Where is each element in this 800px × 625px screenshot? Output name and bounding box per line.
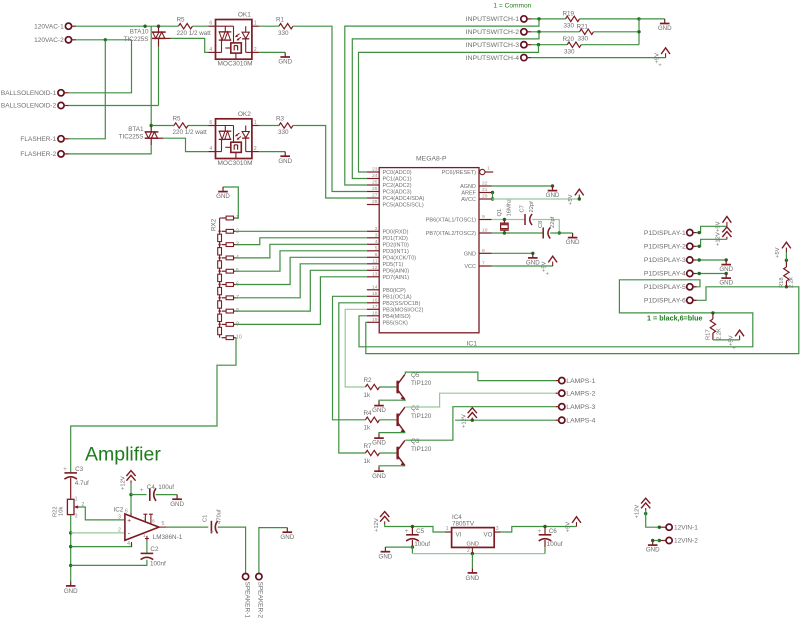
svg-text:AREF: AREF [461,191,476,197]
svg-text:+5V: +5V [654,53,660,64]
transistor Q2 TIP120 [396,414,398,427]
svg-text:R1: R1 [276,16,285,23]
wire rail to op-amp pin4 [71,543,132,546]
RX2 element pin 7 [226,296,233,300]
svg-text:BTA10: BTA10 [130,29,149,36]
wire 12VIN-2 to ground [659,540,666,542]
svg-text:24: 24 [372,173,378,179]
svg-text:+: + [63,466,67,473]
svg-text:P1DISPLAY-1: P1DISPLAY-1 [644,230,686,237]
wire triac BTA1 MT1 to FLASHER-2 [150,138,152,145]
pin 7 VCC [479,265,492,267]
ground C4 [176,495,178,500]
wire 120VAC-1 feed to triac BTA1 and R5b [150,26,152,125]
pin 22 AGND [479,185,492,187]
wire P1DISPLAY-4 to ground [697,273,727,275]
wire PB1 to R4 [333,296,367,420]
wire VCC to +5V [492,265,553,267]
terminal P1DISPLAY-2 [687,243,693,249]
wire Q3 collector to LAMPS-3 [405,407,555,441]
wire P1DISPLAY-2 to +12V [697,239,727,246]
svg-text:GND: GND [464,251,476,257]
triac BTA1 TIC225S [150,126,152,132]
supply +5V AVCC [578,195,580,199]
op-amp pin 1 stub to C2 [146,536,148,541]
svg-text:IC2: IC2 [114,507,124,514]
terminal SPEAKER-1 [243,574,249,580]
resistor R3 (330) [279,123,293,128]
svg-text:GND: GND [280,534,294,541]
svg-text:PC6(/RESET): PC6(/RESET) [442,170,476,176]
svg-text:LAMPS-2: LAMPS-2 [566,390,595,397]
svg-text:P1DISPLAY-6: P1DISPLAY-6 [644,298,686,305]
svg-text:16: 16 [372,297,378,303]
opto-isolator OK1 (MOC3010M) [216,20,252,60]
junction 120VAC-1 at triac Q1 anode [157,25,160,28]
wire R2 to Q5 base [380,386,397,388]
svg-text:120VAC-1: 120VAC-1 [34,23,64,30]
svg-text:4: 4 [209,47,212,53]
ground speaker return [286,528,288,533]
RX2 series resistor [218,261,222,268]
resistor R21 (330) [580,29,594,34]
svg-text:12: 12 [372,265,378,271]
svg-text:PC4(ADC4/SDA): PC4(ADC4/SDA) [383,196,425,202]
svg-text:22: 22 [482,181,488,187]
svg-text:+5V: +5V [542,261,548,272]
supply +12V lamps [471,418,473,421]
wire R3 to MEGA8 PC4 [293,126,367,199]
svg-text:LAMPS-4: LAMPS-4 [566,417,595,424]
svg-text:GND: GND [64,588,78,595]
svg-text:R5: R5 [173,116,182,123]
svg-text:1k: 1k [364,458,372,465]
junction 120VAC-2 / FLASHER-1 feed [104,38,107,41]
wire 120VAC-2 to BALLSOLENOID-1 [69,40,132,93]
pin 13 PD7(AIN1) [367,276,379,278]
svg-text:21: 21 [482,187,488,193]
pin 21 AREF [479,192,492,194]
svg-text:+12V: +12V [716,232,722,246]
svg-text:+5V: +5V [716,221,722,232]
wire C6 to ground rail [544,547,546,554]
RX2 series resistor [218,327,222,334]
svg-text:AVCC: AVCC [461,197,476,203]
ground OK2 [284,152,286,157]
wire C7 to C8 junction [532,220,559,234]
svg-text:PD5(T1): PD5(T1) [383,262,404,268]
transistor Q3 TIP120 [396,447,398,460]
wire AVCC to +5V [492,198,580,200]
svg-text:TIC225S: TIC225S [124,36,149,43]
wire PB4 to P1DISPLAY-5 (IC1 net) [359,280,753,347]
wire RX2 pin 3 to PD1 [236,238,367,245]
svg-text:INPUTSWITCH-1: INPUTSWITCH-1 [466,16,519,23]
wire R19 to ground rail [580,18,640,20]
svg-text:PD7(AIN1): PD7(AIN1) [383,275,410,281]
svg-text:7: 7 [143,517,146,523]
wire C8 to ground [550,232,572,234]
svg-text:9: 9 [482,214,485,220]
svg-text:PB3(MOSI/OC2): PB3(MOSI/OC2) [383,307,424,313]
svg-text:INPUTSWITCH-4: INPUTSWITCH-4 [466,55,519,62]
svg-text:C8: C8 [538,221,544,228]
svg-text:PB6(XTAL1/TOSC1): PB6(XTAL1/TOSC1) [426,218,476,224]
supply +12V display 2 [726,237,728,240]
svg-text:PC1(ADC1): PC1(ADC1) [383,177,412,183]
svg-text:16Mhz: 16Mhz [507,199,513,217]
RX2 element pin 6 [226,283,233,287]
wire LAMPS-4 to +12V [455,419,555,421]
wire Q3 emitter to ground [379,465,405,468]
svg-text:+: + [546,272,550,278]
wire Q2 collector to LAMPS-2 [405,393,555,407]
svg-text:4: 4 [127,541,130,547]
svg-text:6: 6 [209,120,212,126]
ground crystal [572,233,574,238]
wire C1 to SPEAKER-1 [218,527,246,573]
svg-text:28: 28 [372,199,378,205]
svg-text:2.2k: 2.2k [789,277,795,288]
svg-text:100uf: 100uf [414,541,430,548]
svg-text:FLASHER-1: FLASHER-1 [20,136,56,143]
svg-text:C2: C2 [150,546,159,553]
svg-text:+5V: +5V [568,194,574,205]
pin 26 PC3(ADC3) [367,191,379,193]
ground amplifier rail [70,581,72,586]
svg-text:100uf: 100uf [158,484,174,491]
wire RX2 pin 10 to amplifier input [71,338,236,473]
svg-text:3: 3 [75,514,78,520]
wire OK2 pin 1 to R3 [259,125,279,127]
pin 24 PC1(ADC1) [367,178,379,180]
svg-text:11: 11 [372,258,377,264]
svg-text:C6: C6 [549,528,558,535]
RX2 series resistor [218,274,222,281]
resistor R18 (2.2k) pullup [785,285,788,288]
RX2 ladder rail [220,217,222,219]
wire RX2 pin 4 to PD2 [236,244,367,258]
svg-text:5: 5 [375,245,378,251]
terminal LAMPS-4 [559,417,565,423]
svg-text:10: 10 [236,335,242,341]
wire regulator ground rail [412,553,545,555]
ground OK1 [284,52,286,57]
pin 4 PD2(INT0) [367,243,379,245]
supply +12V input header [645,508,647,511]
svg-text:LAMPS-1: LAMPS-1 [566,378,595,385]
ground AGND [552,186,554,191]
wire 120VAC-2 [76,39,132,41]
svg-text:1 = Common: 1 = Common [493,3,531,10]
svg-text:LAMPS-3: LAMPS-3 [566,404,595,411]
wire P1DISPLAY-1 to +5V [697,226,727,232]
svg-text:OK2: OK2 [238,111,251,118]
svg-text:PD4(XCK/T0): PD4(XCK/T0) [383,255,417,261]
svg-text:PC3(ADC3): PC3(ADC3) [383,190,412,196]
svg-text:330: 330 [278,30,289,37]
svg-text:R2: R2 [364,377,373,384]
RX2 element pin 8 [226,309,233,313]
svg-text:1k: 1k [364,392,372,399]
svg-text:26: 26 [372,186,378,192]
svg-text:INPUTSWITCH-2: INPUTSWITCH-2 [466,29,519,36]
svg-text:PC0(ADC0): PC0(ADC0) [383,170,412,176]
wire PB2 to R7 [339,303,367,453]
wire PB3 to R2 [345,309,367,387]
svg-text:VI: VI [456,532,462,539]
svg-text:R4: R4 [364,410,373,417]
svg-text:330: 330 [278,129,289,136]
svg-text:GND: GND [372,473,386,480]
wire INPUTSWITCH-3 to R20 and MEGA8 PC0 [531,44,567,46]
svg-text:R5: R5 [177,16,186,23]
svg-text:R19: R19 [563,10,575,17]
svg-text:2: 2 [467,548,470,554]
svg-text:PB1(OC1A): PB1(OC1A) [383,294,412,300]
pin 6 PD4(XCK/T0) [367,256,379,258]
svg-text:+12V: +12V [635,505,641,519]
svg-text:1 = black,6=blue: 1 = black,6=blue [647,314,703,323]
svg-text:120VAC-2: 120VAC-2 [34,37,64,44]
svg-text:GND: GND [719,280,733,287]
svg-text:MOC3010M: MOC3010M [218,61,253,68]
svg-text:TIP120: TIP120 [411,413,432,420]
svg-text:R3: R3 [276,116,285,123]
resistor R4 (1k) [366,417,380,422]
svg-text:3: 3 [118,514,121,520]
resistor R5 (220 1/2 watt) [178,24,192,29]
svg-text:+: + [127,518,131,525]
svg-text:7: 7 [482,261,485,267]
svg-text:2: 2 [254,146,257,152]
supply +12V op-amp [130,483,132,495]
svg-text:C4: C4 [147,484,156,491]
terminal SPEAKER-2 [256,574,262,580]
svg-text:GND: GND [467,542,479,548]
svg-text:PB7(XTAL2/TOSC2): PB7(XTAL2/TOSC2) [426,231,476,237]
svg-text:+5V: +5V [775,247,781,258]
wire R21 to rail [594,31,640,33]
svg-text:GND: GND [646,547,660,554]
terminal P1DISPLAY-6 [687,297,693,303]
svg-text:19: 19 [372,317,378,323]
svg-text:R7: R7 [364,443,373,450]
pin 11 PD5(T1) [367,263,379,265]
terminal INPUTSWITCH-2 [521,29,527,35]
capacitor C5 (100uf) [411,527,413,535]
resistor R1 (330) [279,24,293,29]
svg-text:6: 6 [375,252,378,258]
RX2 element pin 2 [226,229,233,233]
terminal 12VIN-2 [666,537,672,543]
svg-text:OK1: OK1 [238,12,251,19]
svg-text:1: 1 [446,526,449,532]
RX2 series resistor [218,287,222,294]
svg-text:14: 14 [372,284,378,290]
wire IC4 VO to +5V [501,527,577,533]
resistor R17 (2.2K) pullup [711,311,714,314]
svg-text:MEGA8-P: MEGA8-P [416,155,447,162]
svg-text:SPEAKER-2: SPEAKER-2 [257,582,264,619]
svg-text:27: 27 [372,193,378,199]
svg-text:+: + [658,63,662,69]
svg-text:8: 8 [482,248,485,254]
wire 120VAC-2 to FLASHER-1 [69,40,106,139]
wire INPUTSWITCH-1 to R19 and MEGA8 PC2 [531,18,566,20]
wire rail to ground [639,18,665,20]
wire Q2 emitter to ground [379,432,405,435]
wire amp ground rail [70,515,72,582]
svg-text:220 1/2 watt: 220 1/2 watt [177,30,212,37]
wire triac BTA10 gate to OK1 pin 4 [166,37,171,39]
terminal LAMPS-1 [559,378,565,384]
capacitor C8 22pf [542,228,544,239]
svg-text:TIC225S: TIC225S [119,134,144,141]
supply +5V R17 [739,336,741,340]
svg-text:+: + [210,529,214,536]
IC U1 MEGA8-P box [379,168,479,333]
pin 27 PC4(ADC4/SDA) [367,197,379,199]
crystal Q1 16MHz [503,220,505,224]
svg-text:RX2: RX2 [211,218,218,231]
pin 23 PC0(ADC0) [367,171,379,173]
wire RX2 pin 9 to PD7 [236,277,367,325]
svg-text:100uf: 100uf [547,541,563,548]
wire RX2 pin 8 to PD6 [236,270,367,311]
terminal LAMPS-3 [559,404,565,410]
svg-text:18: 18 [372,310,378,316]
wire C5 to ground [385,546,412,548]
wire triac BTA1 gate to OK2 pin 4 [158,137,163,139]
RX2 series resistor [218,301,222,308]
svg-text:Amplifier: Amplifier [85,444,161,466]
wire RX2 pin 2 to PD0 [236,230,367,232]
pin 10 PB7(XTAL2/TOSC2) [479,232,492,234]
svg-text:1: 1 [143,533,146,539]
svg-text:R20: R20 [563,36,575,43]
svg-text:10: 10 [482,228,488,234]
terminal P1DISPLAY-5 [687,284,693,290]
svg-text:23: 23 [372,167,378,173]
pin 19 PB5(SCK) [367,321,379,323]
resistor R2 (1k) [366,384,380,389]
svg-text:GND: GND [379,553,393,560]
wire C4 to ground [156,494,178,496]
svg-text:15: 15 [372,291,378,297]
pin 9 PB6(XTAL1/TOSC1) [479,219,492,221]
svg-text:12VIN-2: 12VIN-2 [674,538,698,545]
RX2 pin 1 to ground [223,187,238,218]
supply +5V input switches [665,53,667,57]
svg-text:13: 13 [372,271,378,277]
svg-text:20: 20 [482,194,488,200]
svg-text:3: 3 [375,232,378,238]
terminal BALLSOLENOID-2 [58,102,64,108]
terminal INPUTSWITCH-4 [521,55,527,61]
svg-text:25: 25 [372,180,378,186]
svg-text:330: 330 [564,48,575,55]
wire triac BTA10 MT1 to BALLSOLENOID-2 [158,38,160,46]
terminal INPUTSWITCH-1 [521,16,527,22]
terminal P1DISPLAY-3 [687,257,693,263]
RX2 element pin 10 [226,336,233,340]
capacitor C1 (470uf) [210,521,212,534]
ground Q2 [378,434,380,439]
svg-text:R17: R17 [705,329,711,340]
svg-text:1: 1 [254,21,257,27]
RX2 element pin 9 [226,323,233,327]
svg-text:4: 4 [375,239,378,245]
svg-text:GND: GND [278,158,292,165]
svg-text:22pf: 22pf [529,201,535,213]
pin 28 PC5(ADC5/SCL) [367,204,379,206]
svg-text:1k: 1k [364,425,372,432]
svg-text:PD2(INT0): PD2(INT0) [383,242,409,248]
supply +5V R18 [785,248,787,252]
ground C5 [384,547,386,552]
wire R4 to Q2 base [380,419,397,421]
svg-text:100nf: 100nf [150,561,166,568]
wire +12V to IC4 VI [385,524,445,532]
wire AGND to ground [492,185,553,187]
wire Q5 emitter to ground [379,400,405,401]
ground display 4 [725,274,727,279]
svg-text:GND: GND [566,239,580,246]
svg-text:GND: GND [546,192,560,199]
svg-text:R18: R18 [779,277,785,288]
op-amp pin 5 output wire [159,526,167,528]
ground Q5 [378,401,380,406]
ground Q3 [378,467,380,472]
RX2 element pin 5 [226,269,233,273]
svg-text:PB4(MISO): PB4(MISO) [383,314,411,320]
wire SPEAKER-2 to ground [259,528,287,574]
terminal 12VIN-1 [666,524,672,530]
capacitor C6 (100uf) [544,527,546,535]
pin 5 PD3(INT1) [367,250,379,252]
terminal FLASHER-2 [58,151,64,157]
wire OK1 pin 1 to R1 [259,25,279,27]
svg-text:GND: GND [372,407,386,414]
op-amp IC2 LM386N-1 [125,514,159,540]
wire 120VAC-1 to R5 and OK1 pin 6 [76,25,178,27]
svg-text:220 1/2 watt: 220 1/2 watt [173,129,208,136]
wire R17 to +5V [713,339,740,341]
wire OK1 pin 2 to ground [259,51,285,53]
svg-text:+12V: +12V [120,476,126,490]
svg-text:MOC3010M: MOC3010M [218,160,253,167]
pin 17 PB3(MOSI/OC2) [367,308,379,310]
pin 25 PC2(ADC2) [367,184,379,186]
svg-text:PB0(ICP): PB0(ICP) [383,288,406,294]
supply +12V regulator input [384,521,386,524]
terminal 120VAC-2 [65,37,71,43]
svg-text:VO: VO [484,532,493,539]
wire common resistor rail [638,19,640,45]
svg-text:SPEAKER-1: SPEAKER-1 [243,582,250,619]
svg-text:4.7uf: 4.7uf [75,480,89,487]
wire Q5 collector to LAMPS-1 [405,372,555,381]
ground MCU [532,253,534,258]
wire P1DISPLAY-6 riser [693,287,786,301]
resistor R19 (330) [566,16,580,21]
wire R5b to OK2 pin 6 [151,125,174,127]
svg-text:GND: GND [170,501,184,508]
pin 8 GND [479,252,492,254]
RX2 series resistor [218,248,222,255]
svg-text:P1DISPLAY-2: P1DISPLAY-2 [644,244,686,251]
